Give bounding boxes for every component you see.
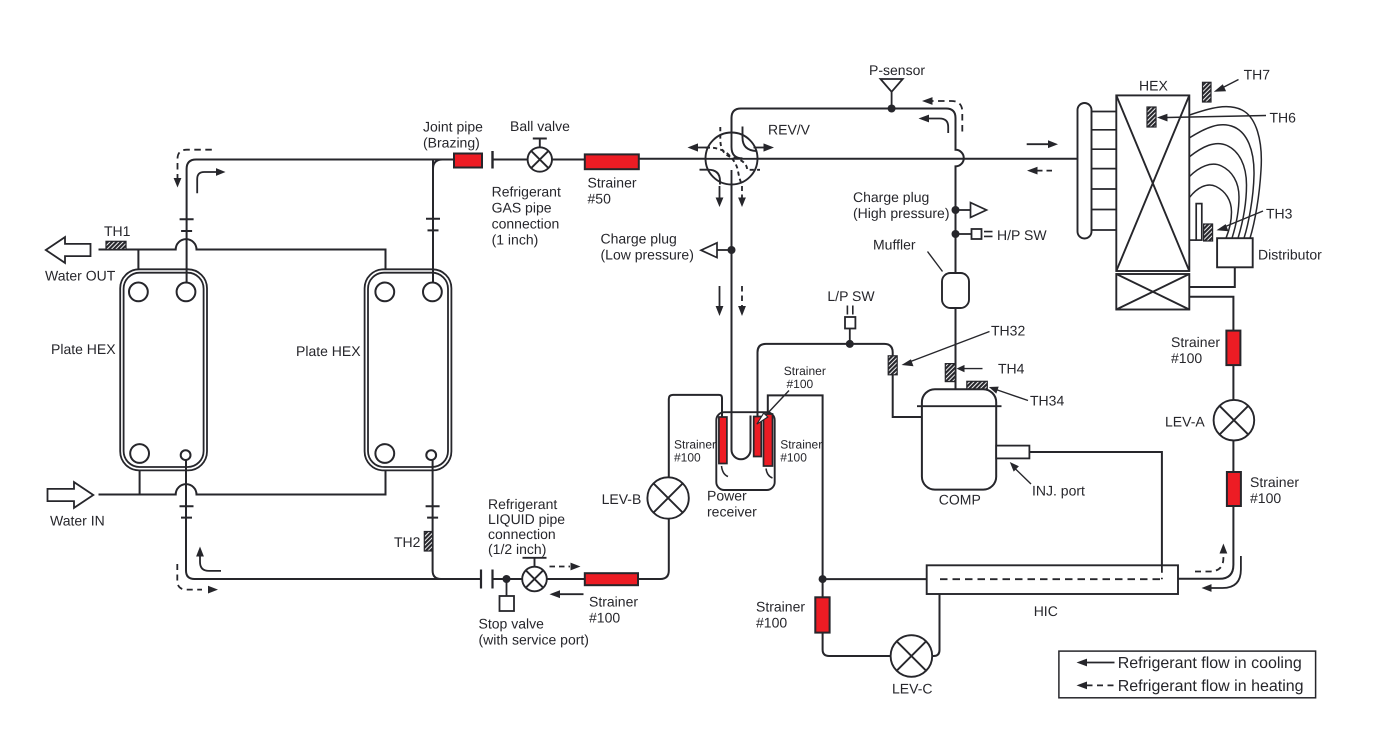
plate HEX right (365, 269, 452, 470)
svg-text:#100: #100 (780, 451, 807, 465)
wire liquid pipe right plate with TH2 (433, 460, 442, 579)
legend dashed arrow (1087, 684, 1115, 686)
sensor TH34 (967, 381, 1065, 408)
svg-text:(High pressure): (High pressure) (853, 205, 949, 221)
joint marks right liquid pipe (426, 506, 440, 517)
svg-text:Muffler: Muffler (873, 237, 916, 253)
arrow heating top-left (dashed) (178, 150, 212, 179)
svg-text:TH4: TH4 (998, 361, 1025, 377)
svg-text:LEV-C: LEV-C (892, 681, 932, 697)
wire inj line (1029, 452, 1162, 565)
arrow Water IN (48, 482, 105, 528)
arrow cooling at strainer (solid left) (560, 593, 584, 595)
svg-text:HEX: HEX (1139, 78, 1168, 94)
gas connection tick (491, 151, 493, 169)
svg-text:Strainer: Strainer (1250, 474, 1299, 490)
arrow revv down dashed 2 (741, 286, 743, 307)
svg-text:H/P SW: H/P SW (997, 227, 1047, 243)
joint marks left liquid pipe (180, 506, 194, 517)
svg-text:Charge plug: Charge plug (853, 189, 929, 205)
svg-text:Strainer: Strainer (674, 438, 716, 452)
svg-text:connection: connection (492, 216, 560, 232)
wire LEV-B to receiver (669, 395, 722, 478)
svg-text:#100: #100 (787, 377, 814, 391)
SECTION: gas line (180, 159, 1078, 283)
svg-text:GAS pipe: GAS pipe (492, 200, 552, 216)
svg-text:Strainer: Strainer (756, 599, 805, 615)
strainer #100 receiver left (719, 417, 727, 464)
junction dot bottom (819, 575, 827, 583)
wire muffler to comp (955, 308, 957, 389)
valve LEV-A (1214, 400, 1255, 441)
hex fins (1092, 112, 1117, 231)
svg-text:#100: #100 (674, 451, 701, 465)
arrow revv left (697, 147, 710, 149)
strainer #100 receiver right (764, 414, 773, 466)
valve LEV-C (891, 635, 933, 677)
charge plug low pressure (601, 231, 736, 263)
L/P SW (827, 288, 875, 348)
wire dashed inside HIC (940, 565, 1162, 579)
arrow heating top-right (dashed) (932, 101, 962, 132)
strainer #50 (585, 154, 639, 206)
svg-text:INJ. port: INJ. port (1032, 483, 1085, 499)
svg-text:TH34: TH34 (1030, 393, 1064, 409)
svg-text:(Low pressure): (Low pressure) (601, 247, 694, 263)
sensor TH7 (1203, 67, 1271, 103)
power receiver vessel (716, 412, 774, 490)
wire receiver right pipe riser (768, 395, 823, 579)
leader white arrow strainer label to middle strainer (766, 391, 789, 416)
SECTION: legend (1059, 651, 1316, 698)
svg-text:(1 inch): (1 inch) (492, 232, 539, 248)
svg-text:#100: #100 (756, 615, 787, 631)
svg-text:LEV-B: LEV-B (602, 491, 642, 507)
svg-text:Water OUT: Water OUT (45, 268, 116, 284)
reversing valve REV/V (700, 127, 761, 185)
wire suction line to comp with TH32 (758, 344, 922, 417)
svg-text:LIQUID pipe: LIQUID pipe (488, 511, 565, 527)
svg-text:#100: #100 (589, 610, 620, 626)
svg-text:Water IN: Water IN (50, 513, 105, 529)
svg-text:TH2: TH2 (394, 534, 421, 550)
arrow heating on gas line (dashed left) (1037, 170, 1056, 172)
arrow cooling top-left (solid) (197, 172, 216, 193)
wire LEV-A column to HIC (1178, 506, 1233, 579)
arrow heating at strainer (dashed right) (550, 566, 571, 568)
svg-text:Stop valve: Stop valve (479, 616, 545, 632)
INJ. port (996, 446, 1085, 499)
wire connection to stop valve (493, 578, 585, 580)
svg-text:L/P SW: L/P SW (827, 288, 875, 304)
stop valve (522, 558, 547, 592)
hook under left strainer (722, 466, 729, 477)
joint marks left gas pipe (180, 219, 194, 231)
H/P SW (952, 227, 1048, 243)
label strainer #100 receiver left (674, 438, 716, 465)
hook under right strainer (766, 469, 773, 479)
svg-text:COMP: COMP (939, 492, 981, 508)
wire strainer to LEV-C (823, 633, 891, 656)
P-sensor (869, 62, 925, 113)
svg-text:(1/2 inch): (1/2 inch) (488, 541, 546, 557)
svg-text:REV/V: REV/V (768, 122, 811, 138)
wire LEV-C to HIC (932, 594, 939, 656)
svg-text:#100: #100 (1171, 350, 1202, 366)
wire gas pipe right plate (433, 160, 443, 283)
svg-text:Refrigerant flow in heating: Refrigerant flow in heating (1118, 678, 1304, 695)
svg-text:Strainer: Strainer (588, 175, 637, 191)
wire water out line (99, 239, 386, 283)
arrow cooling on gas line (solid right) (1027, 143, 1048, 145)
distributor (1217, 238, 1322, 267)
arrow cooling bottom-left (solid) (200, 556, 221, 571)
arrow revv right (754, 147, 765, 149)
arrow heating at HIC right (dashed) (1195, 553, 1223, 572)
plate HEX left (120, 269, 207, 470)
HIC heat exchanger (927, 565, 1178, 619)
wire discharge top loop (732, 109, 964, 274)
sensor TH1 (104, 223, 131, 250)
svg-text:Plate HEX: Plate HEX (51, 341, 116, 357)
arrow cooling at HIC right (solid) (1211, 556, 1241, 588)
wire distributor outlet (1190, 267, 1235, 287)
arrow revv down solid 2 (719, 286, 721, 307)
svg-text:Charge plug: Charge plug (601, 231, 677, 247)
service port square (500, 575, 515, 611)
strainer #100 right bottom (1227, 472, 1299, 506)
wire water out port left (137, 250, 139, 283)
strainer #100 bottom (756, 597, 830, 632)
wire revv down to receiver (U-tube left leg) (732, 185, 751, 460)
strainer #100 receiver middle (754, 417, 762, 457)
svg-text:TH32: TH32 (991, 323, 1025, 339)
svg-text:HIC: HIC (1034, 603, 1058, 619)
wire gas line mid (493, 158, 1078, 161)
sensor TH6 (1147, 107, 1296, 127)
wire water in port left (139, 463, 141, 495)
svg-text:#100: #100 (1250, 490, 1281, 506)
svg-text:Refrigerant: Refrigerant (488, 496, 557, 512)
arrow revv down solid 1 (719, 186, 721, 199)
svg-text:(with service port): (with service port) (479, 632, 589, 648)
label refrigerant liquid pipe connection (488, 496, 565, 557)
wire liquid pipe left plate (186, 460, 481, 579)
svg-text:connection: connection (488, 526, 556, 542)
wire strainer to LEV-B (638, 519, 669, 579)
sensor TH2 (394, 532, 433, 552)
svg-text:Joint pipe: Joint pipe (423, 119, 483, 135)
compressor COMP (917, 389, 1002, 507)
arrow revv down dashed 1 (741, 186, 743, 199)
SECTION: water circuit (99, 239, 386, 494)
svg-text:Strainer: Strainer (589, 594, 638, 610)
svg-text:TH3: TH3 (1266, 206, 1293, 222)
label strainer #100 receiver top (784, 364, 826, 391)
hex header capsule (1078, 103, 1092, 239)
joint pipe (Brazing) red rect (423, 119, 483, 168)
wire gas pipe left plate (187, 160, 454, 283)
wire hex bottom to strainer (1190, 297, 1234, 331)
svg-text:Distributor: Distributor (1258, 247, 1322, 263)
ball valve (528, 139, 552, 172)
svg-text:TH7: TH7 (1244, 67, 1271, 83)
capillary curves to distributor (1190, 107, 1262, 239)
svg-text:#50: #50 (588, 191, 612, 207)
wire junction to HIC (823, 578, 927, 580)
svg-text:Strainer: Strainer (784, 364, 826, 378)
label refrigerant gas pipe connection (492, 184, 561, 248)
svg-text:TH1: TH1 (104, 223, 131, 239)
svg-text:Ball valve: Ball valve (510, 118, 570, 134)
svg-text:Refrigerant: Refrigerant (492, 184, 561, 200)
muffler (873, 237, 969, 309)
charge plug high pressure (853, 189, 987, 221)
wire junction down to strainer (822, 579, 824, 597)
sensor TH4 (945, 361, 1024, 382)
arrow Water OUT (45, 237, 116, 283)
arrow heating bottom-left (dashed) (177, 564, 202, 590)
svg-text:Plate HEX: Plate HEX (296, 343, 361, 359)
wire receiver mid pipe to L/P line (757, 412, 759, 417)
label strainer #100 receiver right (780, 438, 822, 465)
strainer #100 right top (1171, 331, 1240, 366)
valve LEV-B (647, 477, 688, 518)
svg-text:receiver: receiver (707, 504, 757, 520)
sensor TH3 (1204, 206, 1293, 242)
legend solid arrow (1087, 662, 1115, 664)
svg-text:TH6: TH6 (1270, 110, 1297, 126)
wire strainer to LEV-A (1232, 365, 1234, 472)
svg-text:Power: Power (707, 488, 747, 504)
HEX bottom box with X (1116, 274, 1189, 310)
strainer #100 liquid (585, 573, 639, 625)
svg-text:(Brazing): (Brazing) (423, 135, 480, 151)
svg-text:LEV-A: LEV-A (1165, 414, 1205, 430)
sensor TH32 (888, 323, 1025, 375)
HEX main box with X (1116, 95, 1189, 271)
svg-text:Strainer: Strainer (780, 438, 822, 452)
arrow cooling top-right (solid) (929, 119, 949, 134)
liquid connection ticks (481, 570, 493, 589)
svg-text:Refrigerant flow in cooling: Refrigerant flow in cooling (1118, 655, 1302, 672)
svg-text:P-sensor: P-sensor (869, 62, 925, 78)
joint marks right gas pipe (426, 219, 440, 231)
wire U-tube inside receiver (732, 412, 751, 459)
wire water in line (99, 463, 386, 495)
svg-text:Strainer: Strainer (1171, 334, 1220, 350)
liquid header tube (1190, 204, 1202, 241)
